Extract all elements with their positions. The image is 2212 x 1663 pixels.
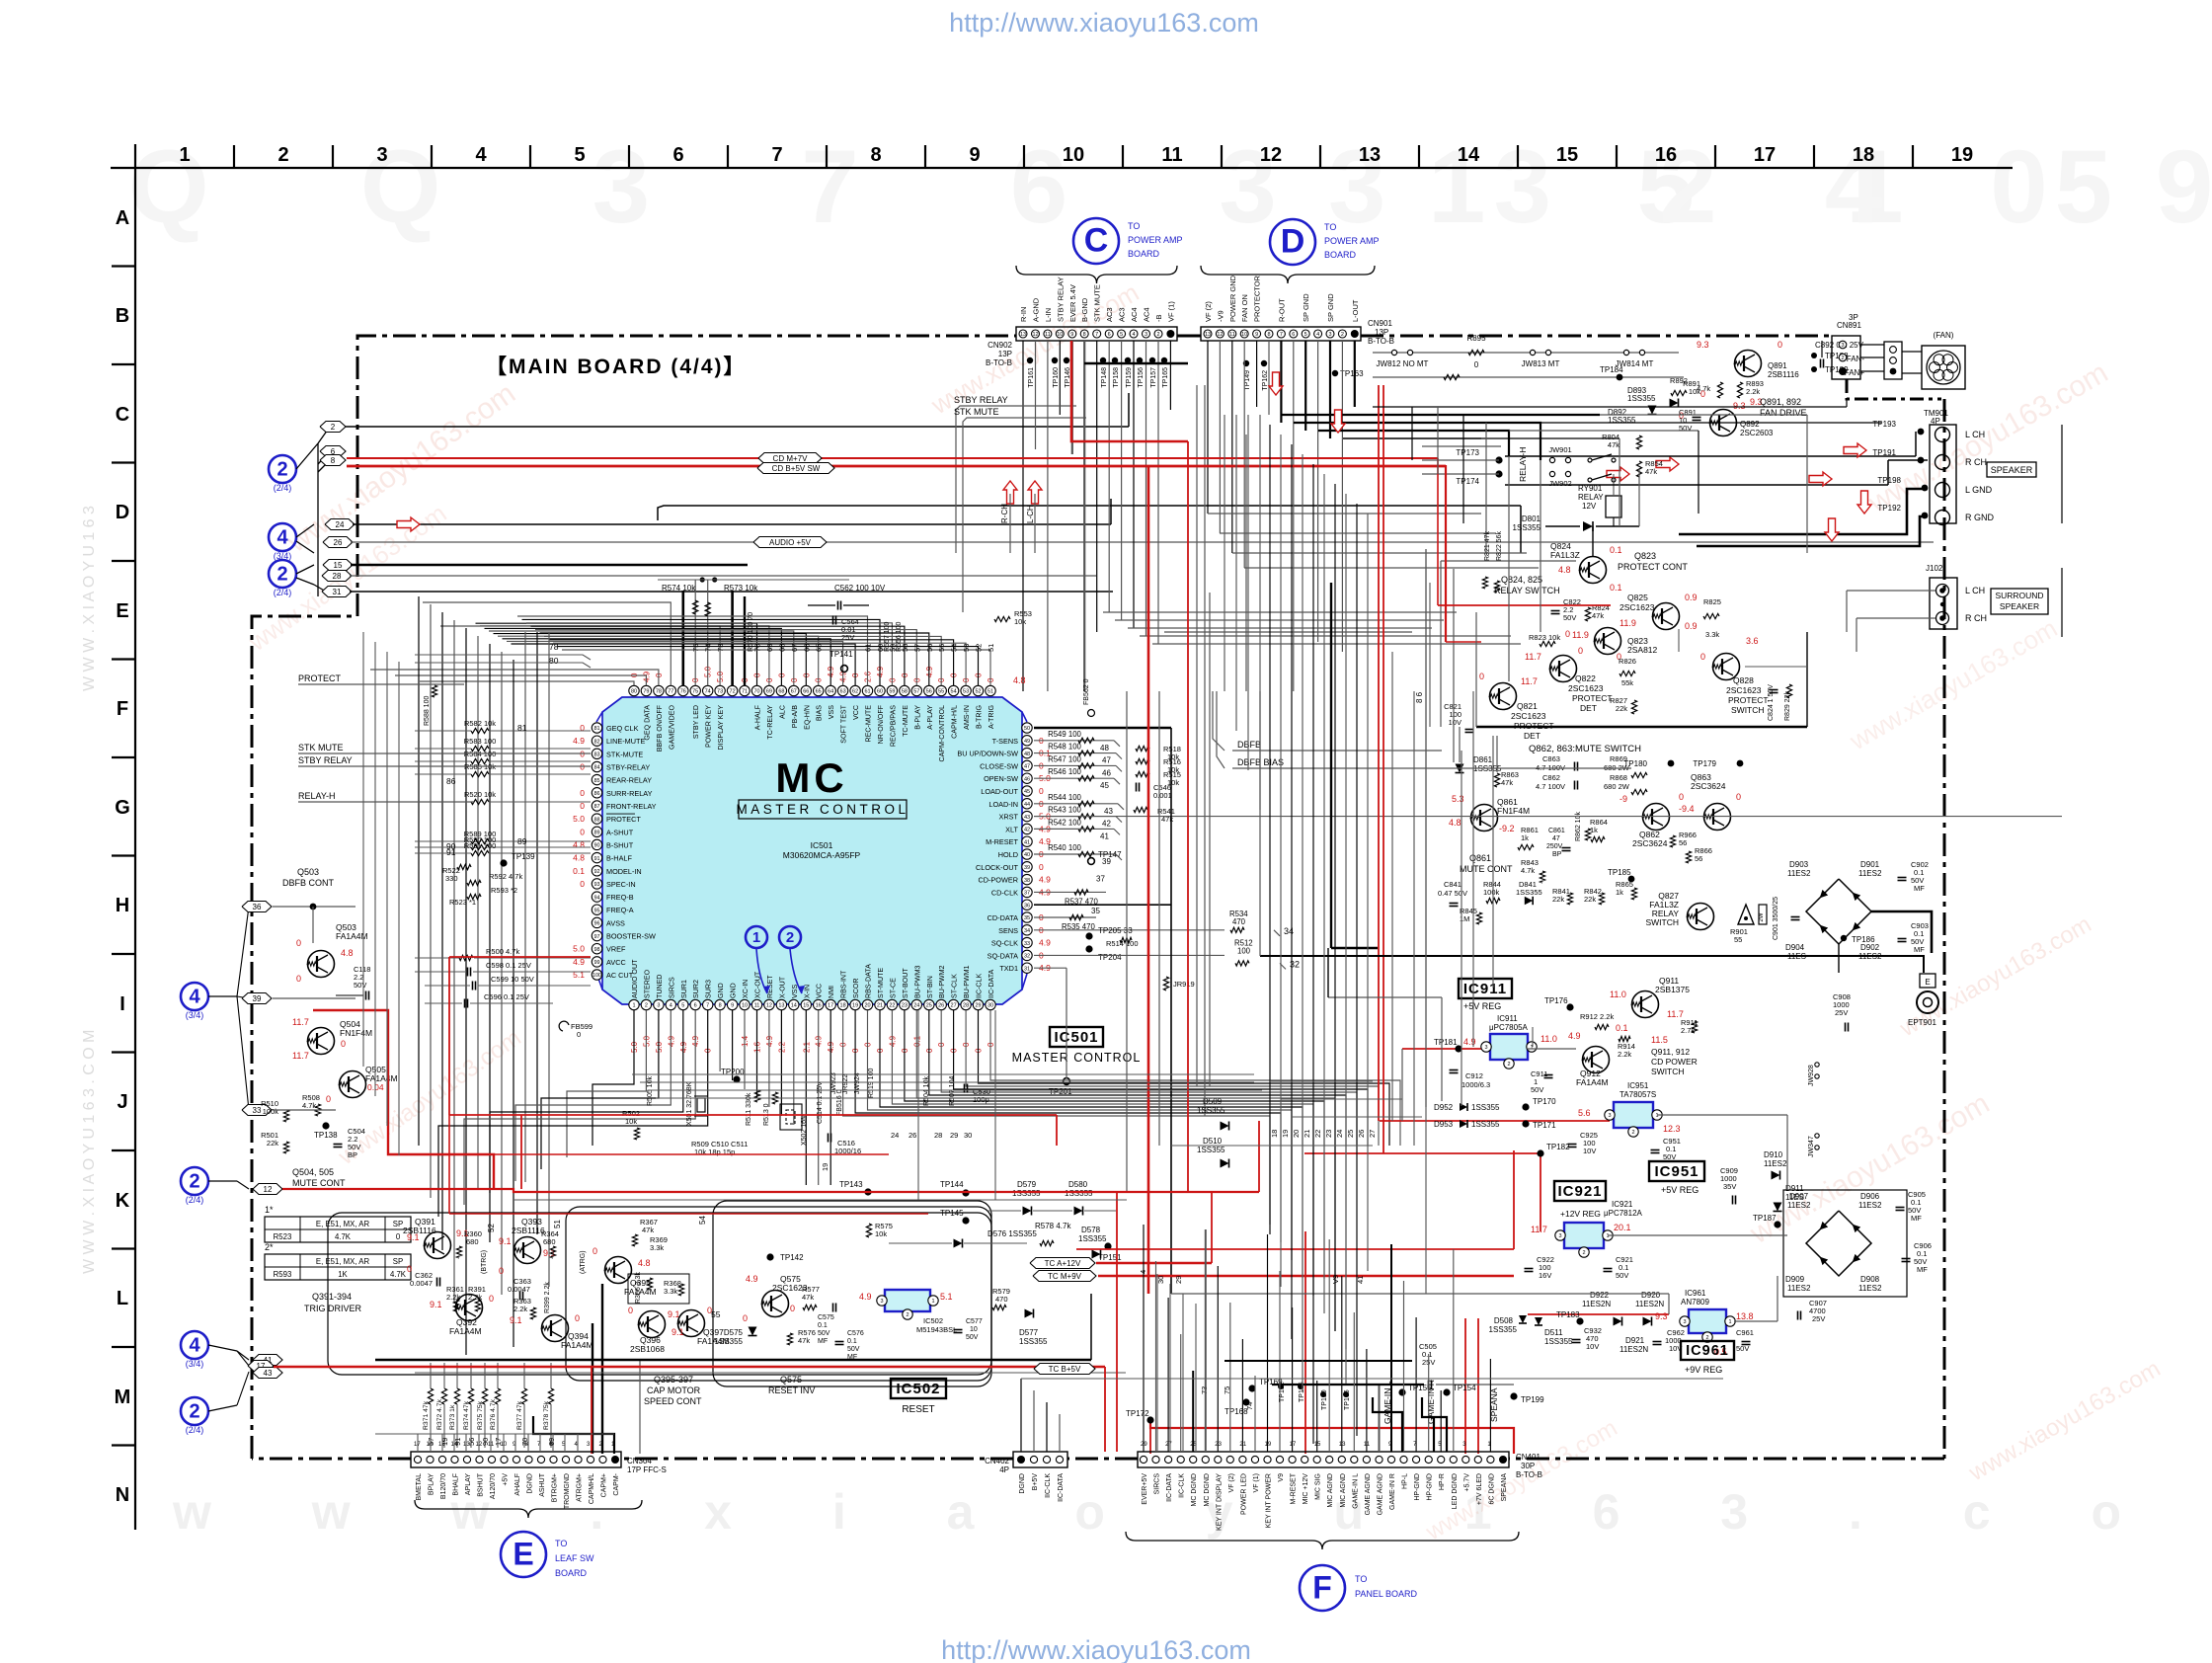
- svg-text:82: 82: [593, 739, 599, 745]
- svg-text:56: 56: [926, 689, 932, 695]
- svg-text:47k: 47k: [802, 1293, 814, 1302]
- svg-text:R821 47k: R821 47k: [1484, 531, 1491, 561]
- svg-text:80: 80: [631, 689, 637, 695]
- svg-text:67: 67: [790, 644, 799, 652]
- svg-text:IC921: IC921: [1557, 1183, 1602, 1200]
- svg-text:IC501: IC501: [1054, 1029, 1098, 1046]
- svg-text:0: 0: [1039, 862, 1044, 872]
- TP138: [322, 1122, 329, 1129]
- svg-text:JR922: JR922: [842, 1074, 849, 1094]
- svg-text:BP: BP: [1552, 851, 1562, 858]
- svg-text:59: 59: [889, 689, 895, 695]
- svg-text:13: 13: [1339, 1442, 1346, 1448]
- transistor Q861: [1471, 805, 1498, 831]
- svg-text:3P: 3P: [1849, 313, 1858, 322]
- svg-text:SOFT TEST: SOFT TEST: [840, 704, 848, 743]
- svg-text:L-IN: L-IN: [1044, 308, 1053, 322]
- svg-text:10: 10: [1057, 332, 1063, 338]
- resistor R892: [1671, 390, 1687, 395]
- svg-text:D908: D908: [1860, 1275, 1880, 1284]
- svg-text:C901 3500/25: C901 3500/25: [1773, 897, 1779, 940]
- transistor Q892: [1710, 410, 1737, 436]
- svg-text:9: 9: [1070, 332, 1073, 338]
- svg-text:50: 50: [1024, 726, 1030, 732]
- svg-text:61: 61: [864, 689, 870, 695]
- svg-text:TP156: TP156: [1138, 367, 1145, 388]
- svg-text:BU-PWM1: BU-PWM1: [963, 965, 971, 998]
- TP147: [1088, 858, 1095, 865]
- resistor bank R371-R378: [428, 1388, 433, 1404]
- transistor Q394: [542, 1315, 569, 1342]
- svg-text:L: L: [117, 1288, 128, 1309]
- svg-text:TP151: TP151: [1098, 1253, 1122, 1262]
- svg-text:71: 71: [742, 689, 748, 695]
- svg-text:R912 2.2k: R912 2.2k: [1580, 1012, 1614, 1021]
- resistor R541: [1134, 807, 1147, 812]
- svg-text:TP143: TP143: [839, 1180, 863, 1189]
- svg-text:3: 3: [1841, 343, 1844, 349]
- svg-text:4P: 4P: [999, 1465, 1009, 1474]
- svg-text:1SS355: 1SS355: [1197, 1106, 1225, 1115]
- transistor Q825: [1653, 603, 1680, 630]
- IC501 master control box: [739, 800, 907, 819]
- svg-text:11.0: 11.0: [1540, 1034, 1557, 1044]
- svg-text:30: 30: [987, 1003, 993, 1009]
- wire net26 AUDIO+5V: [351, 541, 1934, 543]
- svg-text:56: 56: [1695, 854, 1702, 863]
- transistor Q503: [308, 951, 335, 978]
- svg-text:15: 15: [1556, 144, 1578, 166]
- svg-text:ST-CE: ST-CE: [889, 978, 897, 998]
- svg-text:4.7K: 4.7K: [390, 1270, 407, 1279]
- net stub 12: [253, 1184, 282, 1195]
- svg-text:10k: 10k: [625, 1117, 637, 1126]
- svg-text:STBY RELAY: STBY RELAY: [298, 755, 353, 765]
- SURROUND SPEAKER label: [1991, 589, 2048, 614]
- svg-text:47k: 47k: [1592, 611, 1604, 620]
- red mid long bus: [1076, 1248, 1514, 1250]
- svg-text:F: F: [1312, 1569, 1332, 1605]
- wire drops into CN401: [1143, 1225, 1145, 1452]
- svg-text:20: 20: [1292, 1130, 1301, 1138]
- svg-text:MF: MF: [1914, 945, 1925, 954]
- net stub 2: [320, 422, 346, 433]
- svg-text:44: 44: [1024, 802, 1030, 808]
- svg-text:10: 10: [1063, 144, 1084, 166]
- svg-text:3: 3: [1558, 1233, 1561, 1239]
- svg-text:R520 10k: R520 10k: [464, 790, 496, 799]
- svg-text:91: 91: [593, 856, 599, 862]
- svg-text:FA1A4M: FA1A4M: [365, 1073, 398, 1083]
- svg-text:48: 48: [1024, 752, 1030, 757]
- resistor R804: [1636, 436, 1641, 449]
- svg-text:41: 41: [1100, 831, 1109, 840]
- svg-text:27: 27: [1165, 1442, 1172, 1448]
- svg-text:21: 21: [877, 1003, 883, 1009]
- svg-text:Q395-397: Q395-397: [654, 1375, 693, 1385]
- svg-text:11.7: 11.7: [1531, 1225, 1547, 1234]
- svg-text:R511 330k: R511 330k: [746, 1092, 752, 1126]
- svg-text:DET: DET: [1524, 731, 1540, 741]
- svg-text:0: 0: [1777, 340, 1782, 350]
- svg-text:4.7K: 4.7K: [335, 1232, 352, 1241]
- svg-text:BHALF: BHALF: [453, 1473, 460, 1496]
- ref circle 2 in block: [779, 926, 801, 948]
- svg-text:41: 41: [1024, 839, 1030, 845]
- svg-text:B-SHUT: B-SHUT: [606, 840, 634, 849]
- svg-text:9.3: 9.3: [1697, 340, 1709, 350]
- svg-text:K: K: [116, 1190, 130, 1212]
- svg-text:SUR1: SUR1: [680, 980, 688, 998]
- svg-text:21: 21: [1239, 1442, 1246, 1448]
- svg-text:KEY INT POWER: KEY INT POWER: [1266, 1473, 1273, 1528]
- transistor Q391: [425, 1232, 451, 1259]
- svg-text:D576 1SS355: D576 1SS355: [987, 1229, 1037, 1238]
- svg-text:R593: R593: [274, 1270, 292, 1279]
- svg-text:http://www.xiaoyu163.com: http://www.xiaoyu163.com: [949, 8, 1259, 38]
- svg-text:RBS-DATA: RBS-DATA: [865, 964, 873, 998]
- capacitor C546: [1136, 783, 1138, 792]
- wire fanout below IC501: [592, 1010, 634, 1146]
- svg-text:2: 2: [1841, 356, 1844, 361]
- svg-text:TP184: TP184: [1600, 365, 1623, 374]
- svg-text:LOAD-OUT: LOAD-OUT: [981, 787, 1018, 796]
- svg-text:TP170: TP170: [1533, 1097, 1556, 1106]
- svg-text:AC4: AC4: [1130, 307, 1139, 322]
- svg-text:4.9: 4.9: [1463, 1037, 1476, 1047]
- svg-text:55: 55: [938, 689, 944, 695]
- svg-text:1SS355: 1SS355: [1012, 1189, 1041, 1198]
- svg-text:SURR-RELAY: SURR-RELAY: [606, 789, 653, 798]
- svg-text:DBFB: DBFB: [1237, 740, 1261, 750]
- transistor Q862: [1643, 804, 1670, 831]
- red TC A+12V: [1096, 1262, 1212, 1264]
- svg-text:CLOSE-SW: CLOSE-SW: [980, 761, 1018, 770]
- net stub 41: [253, 1355, 282, 1366]
- svg-text:47k: 47k: [642, 1226, 654, 1234]
- svg-text:R540 100: R540 100: [1048, 843, 1081, 852]
- svg-text:FB599: FB599: [571, 1022, 592, 1031]
- svg-text:0.9: 0.9: [1685, 593, 1698, 602]
- transistor Q395: [605, 1257, 632, 1284]
- svg-text:1000/6.3: 1000/6.3: [1461, 1080, 1490, 1089]
- svg-text:STBY LED: STBY LED: [692, 705, 700, 739]
- svg-text:-9.2: -9.2: [1499, 824, 1515, 833]
- svg-text:FB562 0: FB562 0: [1083, 678, 1090, 705]
- svg-text:TC B+5V: TC B+5V: [1049, 1365, 1081, 1374]
- svg-text:49: 49: [1024, 739, 1030, 745]
- svg-text:11: 11: [1229, 332, 1235, 338]
- svg-text:IIC-CLK: IIC-CLK: [1179, 1473, 1186, 1498]
- svg-text:ST-CLK: ST-CLK: [951, 974, 959, 998]
- svg-text:G: G: [115, 797, 130, 819]
- svg-text:FA1L3Z: FA1L3Z: [1550, 550, 1580, 560]
- svg-text:PROTECT CONT: PROTECT CONT: [1618, 562, 1688, 572]
- red vertical to CN401: [1116, 1192, 1118, 1452]
- svg-text:15: 15: [803, 1003, 809, 1009]
- svg-text:78: 78: [549, 642, 559, 652]
- svg-text:20.1: 20.1: [1614, 1223, 1631, 1232]
- red drop EVER5.4V: [1071, 341, 1188, 441]
- resistor R891: [1717, 382, 1722, 398]
- resistor R893: [1737, 382, 1742, 398]
- svg-text:16V: 16V: [1539, 1271, 1551, 1280]
- svg-text:C599 10 50V: C599 10 50V: [491, 975, 534, 984]
- wire mesh top right: [1373, 406, 1847, 408]
- svg-text:2: 2: [645, 1003, 648, 1009]
- svg-text:6: 6: [694, 1003, 697, 1009]
- svg-text:TP180: TP180: [1623, 759, 1647, 768]
- svg-text:4.7 100V: 4.7 100V: [1536, 782, 1565, 791]
- svg-text:R-IN: R-IN: [1019, 307, 1028, 322]
- svg-text:11ES2: 11ES2: [1787, 1201, 1811, 1210]
- svg-text:2SB1116: 2SB1116: [512, 1226, 545, 1235]
- svg-text:2: 2: [189, 1400, 199, 1422]
- svg-text:TP173: TP173: [1456, 448, 1479, 457]
- svg-text:R556 100: R556 100: [896, 622, 903, 652]
- svg-text:32: 32: [1024, 954, 1030, 960]
- svg-text:M51943BSL: M51943BSL: [916, 1325, 957, 1334]
- svg-text:54: 54: [950, 644, 959, 652]
- svg-text:A-HALF: A-HALF: [754, 704, 762, 730]
- svg-text:BOARD: BOARD: [555, 1568, 588, 1578]
- svg-text:PROTECT: PROTECT: [1728, 695, 1769, 705]
- svg-text:MASTER CONTROL: MASTER CONTROL: [1012, 1051, 1142, 1065]
- svg-text:Q503: Q503: [297, 867, 319, 877]
- wire drops into CN402: [1020, 1379, 1022, 1452]
- svg-text:0: 0: [1700, 652, 1705, 662]
- svg-text:9.3: 9.3: [1655, 1311, 1668, 1321]
- svg-text:C596 0.1 25V: C596 0.1 25V: [484, 992, 529, 1001]
- svg-text:R895: R895: [1466, 334, 1486, 343]
- vertical gray bundle 1240-1276: [1224, 415, 1225, 691]
- svg-text:DISPLAY KEY: DISPLAY KEY: [717, 705, 725, 751]
- svg-text:L-CH: L-CH: [1026, 505, 1035, 523]
- svg-text:47k: 47k: [798, 1336, 810, 1345]
- svg-text:0: 0: [489, 1294, 494, 1304]
- svg-text:7: 7: [771, 144, 782, 166]
- svg-text:ST-BOUT: ST-BOUT: [902, 968, 909, 998]
- svg-text:R514 100: R514 100: [1106, 939, 1139, 948]
- svg-text:R546 100: R546 100: [1048, 767, 1081, 776]
- svg-text:9.1: 9.1: [407, 1232, 420, 1242]
- svg-text:0: 0: [580, 827, 585, 836]
- svg-text:17: 17: [1754, 144, 1776, 166]
- svg-text:0: 0: [577, 1030, 581, 1039]
- svg-text:TP148: TP148: [1101, 367, 1108, 388]
- svg-text:46: 46: [1024, 776, 1030, 782]
- svg-text:TP183: TP183: [1556, 1310, 1580, 1319]
- TP200: [733, 1075, 740, 1082]
- svg-text:45: 45: [1100, 781, 1109, 790]
- svg-text:93: 93: [593, 882, 599, 888]
- svg-text:R372 4.7k: R372 4.7k: [436, 1398, 443, 1430]
- svg-text:AHALF: AHALF: [514, 1473, 521, 1496]
- TP188 TP189: [1811, 353, 1817, 358]
- horizontal gray mid-right links: [1171, 1145, 1373, 1147]
- svg-text:42: 42: [1024, 828, 1030, 833]
- svg-text:52: 52: [975, 644, 984, 652]
- svg-text:43: 43: [264, 1369, 273, 1378]
- svg-text:LINE-MUTE: LINE-MUTE: [606, 737, 645, 746]
- svg-text:1SS355: 1SS355: [1516, 888, 1542, 897]
- svg-text:CAP MOTOR: CAP MOTOR: [647, 1386, 701, 1395]
- svg-text:0: 0: [575, 1313, 580, 1323]
- brace F: [1126, 1532, 1519, 1549]
- svg-text:X502 16M: X502 16M: [801, 1114, 808, 1146]
- svg-text:R548 100: R548 100: [1048, 743, 1081, 752]
- svg-text:ATRGM+: ATRGM+: [577, 1473, 584, 1502]
- svg-text:22k: 22k: [1552, 895, 1564, 904]
- svg-text:46: 46: [1102, 768, 1111, 777]
- svg-text:R588 100: R588 100: [424, 696, 431, 726]
- svg-text:F: F: [117, 698, 128, 720]
- svg-text:50V: 50V: [1679, 424, 1692, 433]
- svg-text:IIC-DATA: IIC-DATA: [1058, 1473, 1065, 1502]
- jumper JW812: [1373, 352, 1679, 354]
- svg-text:NMI: NMI: [828, 986, 835, 998]
- svg-text:R523: R523: [274, 1232, 292, 1241]
- svg-text:IIC-CLK: IIC-CLK: [1045, 1473, 1052, 1498]
- svg-text:26: 26: [908, 1131, 916, 1140]
- svg-text:TP181: TP181: [1434, 1038, 1458, 1047]
- svg-text:CN902: CN902: [987, 341, 1012, 350]
- svg-text:B-PLAY: B-PLAY: [913, 705, 921, 730]
- IC502 label box: [891, 1379, 946, 1398]
- svg-text:POWER LED: POWER LED: [1240, 1473, 1247, 1515]
- svg-text:34: 34: [1024, 928, 1030, 934]
- overline PROTECT pin88: [606, 813, 635, 815]
- svg-text:9.1: 9.1: [430, 1300, 442, 1309]
- svg-text:47k: 47k: [1645, 467, 1657, 476]
- svg-text:81: 81: [593, 726, 599, 732]
- svg-text:11ES2: 11ES2: [1787, 869, 1811, 878]
- svg-text:BU-PWM2: BU-PWM2: [938, 965, 946, 998]
- svg-text:35: 35: [1091, 907, 1100, 915]
- connector C circle: [1073, 218, 1119, 264]
- svg-text:11ES2: 11ES2: [1858, 1284, 1882, 1293]
- svg-text:MF: MF: [1911, 1214, 1922, 1223]
- svg-text:TP160: TP160: [1053, 367, 1060, 388]
- svg-text:SPEAKER: SPEAKER: [2000, 601, 2039, 611]
- svg-text:29: 29: [950, 1131, 958, 1140]
- svg-text:V9: V9: [1278, 1473, 1285, 1482]
- svg-text:1: 1: [1606, 1233, 1609, 1239]
- wire drops from CN902: [1022, 341, 1024, 691]
- svg-text:TC M+9V: TC M+9V: [1048, 1272, 1082, 1281]
- IC501 left pins: [592, 723, 601, 733]
- svg-text:R822 56k: R822 56k: [1496, 531, 1503, 561]
- svg-text:12.3: 12.3: [1663, 1124, 1681, 1134]
- svg-text:VSS: VSS: [791, 985, 799, 998]
- svg-text:TP205 33: TP205 33: [1098, 926, 1133, 935]
- svg-text:BIAS: BIAS: [816, 705, 824, 721]
- svg-text:47k: 47k: [1501, 778, 1513, 787]
- svg-text:BMETAL: BMETAL: [416, 1473, 423, 1501]
- svg-text:Q391-394: Q391-394: [312, 1292, 352, 1302]
- svg-text:2SA812: 2SA812: [1627, 645, 1658, 655]
- svg-text:B120/70: B120/70: [440, 1473, 447, 1499]
- svg-text:RELAY-H: RELAY-H: [298, 791, 336, 801]
- svg-text:63: 63: [840, 689, 846, 695]
- svg-text:STBY RELAY: STBY RELAY: [954, 395, 1008, 405]
- wire net28: [350, 575, 1096, 577]
- svg-text:1SS355: 1SS355: [715, 1337, 744, 1346]
- gray bus lines bottom mid: [415, 1372, 1126, 1374]
- svg-text:R549 100: R549 100: [1048, 730, 1081, 739]
- net stub 24: [325, 519, 355, 530]
- warning triangle R901: [1738, 905, 1754, 924]
- svg-text:11: 11: [1161, 144, 1182, 166]
- svg-text:TP191: TP191: [1872, 448, 1896, 457]
- svg-text:D511: D511: [1544, 1328, 1563, 1337]
- svg-text:EPT901: EPT901: [1908, 1018, 1936, 1027]
- svg-text:76: 76: [680, 689, 686, 695]
- wire verticals left bundle: [418, 596, 420, 1146]
- svg-text:4: 4: [475, 144, 487, 166]
- svg-text:0.1: 0.1: [818, 1322, 828, 1329]
- svg-text:CAPMH/L: CAPMH/L: [589, 1473, 595, 1504]
- red IC911 feed: [1402, 1048, 1483, 1050]
- svg-text:R547 100: R547 100: [1048, 754, 1081, 763]
- ref circle 4 (3/4) row D: [269, 523, 296, 551]
- connector D circle: [1270, 219, 1315, 265]
- svg-text:47k: 47k: [1608, 440, 1619, 449]
- svg-text:R868: R868: [1610, 773, 1627, 782]
- svg-text:30: 30: [964, 1131, 972, 1140]
- svg-text:4: 4: [189, 1334, 200, 1356]
- transistor Q891: [1735, 351, 1762, 377]
- svg-text:TP172: TP172: [1126, 1409, 1149, 1418]
- svg-text:(2/4): (2/4): [274, 483, 292, 493]
- svg-text:11.0: 11.0: [1610, 990, 1626, 999]
- svg-text:AC4: AC4: [1143, 307, 1151, 322]
- ref circle 2 (2/4) row K: [181, 1167, 208, 1195]
- svg-text:2W: 2W: [1759, 912, 1765, 921]
- svg-text:CD POWER: CD POWER: [1651, 1057, 1698, 1067]
- red TC M+9V: [1098, 1275, 1514, 1277]
- svg-text:CN401: CN401: [1516, 1453, 1540, 1462]
- svg-text:Q891, 892: Q891, 892: [1760, 397, 1801, 407]
- svg-text:24: 24: [913, 1003, 919, 1009]
- svg-text:SQ-CLK: SQ-CLK: [991, 939, 1018, 948]
- svg-text:L-OUT: L-OUT: [1351, 299, 1360, 322]
- svg-text:C575: C575: [818, 1314, 834, 1321]
- svg-text:27: 27: [1368, 1130, 1377, 1138]
- svg-text:D904: D904: [1785, 943, 1805, 952]
- svg-text:D921: D921: [1625, 1336, 1645, 1345]
- svg-text:Q892: Q892: [1740, 420, 1760, 429]
- svg-text:MUTE CONT: MUTE CONT: [292, 1178, 346, 1188]
- svg-text:N: N: [116, 1484, 129, 1506]
- svg-text:POWER GND: POWER GND: [1228, 275, 1237, 322]
- svg-text:TO: TO: [1324, 222, 1336, 232]
- svg-text:64: 64: [828, 689, 833, 695]
- svg-text:11ES2: 11ES2: [1858, 1201, 1882, 1210]
- svg-text:43: 43: [1024, 815, 1030, 821]
- svg-text:99: 99: [593, 960, 599, 966]
- svg-text:ST-BIN: ST-BIN: [926, 976, 934, 998]
- svg-text:97: 97: [593, 934, 599, 940]
- red pair turn downs: [1437, 458, 1439, 605]
- svg-text:35V: 35V: [1723, 1182, 1736, 1191]
- svg-text:4: 4: [1316, 332, 1319, 338]
- svg-text:CN901: CN901: [1368, 319, 1392, 328]
- svg-text:AVSS: AVSS: [606, 918, 625, 927]
- svg-text:23: 23: [902, 1003, 908, 1009]
- svg-text:-B: -B: [1154, 315, 1163, 323]
- svg-text:TP185: TP185: [1608, 868, 1631, 877]
